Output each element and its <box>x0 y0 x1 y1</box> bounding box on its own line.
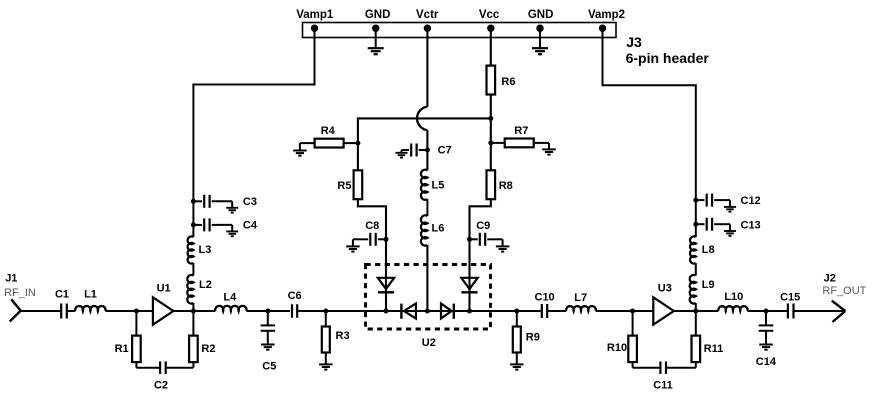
node C5 <box>265 309 270 314</box>
capacitor C14 shunt <box>765 311 767 326</box>
wire L1 to U1 with input node <box>105 310 152 312</box>
resistor R4 <box>355 141 360 146</box>
svg-text:L2: L2 <box>199 279 212 291</box>
inductor L6 <box>421 215 427 245</box>
connector J1 arrow <box>11 299 21 310</box>
diode D2 vertical right <box>467 309 472 314</box>
svg-text:C14: C14 <box>756 356 777 368</box>
node center of diode ring <box>425 309 430 314</box>
wire L9 to U3 output node <box>695 303 697 311</box>
capacitor C9 <box>467 237 472 242</box>
op-amp U3 <box>653 297 674 324</box>
inductor L8 <box>690 236 696 263</box>
wire bias rail corner down through R4 node to R5 <box>357 117 359 170</box>
wire U3 output to L10 <box>674 310 719 312</box>
wire L4 to C6 <box>246 310 290 312</box>
svg-text:R11: R11 <box>704 343 724 355</box>
capacitor C4 <box>191 222 196 227</box>
diode D4 horizontal pointing right <box>441 304 452 319</box>
ground at header pin 5 <box>539 28 541 48</box>
wire bias rail R4 side to Vcc column <box>358 117 491 119</box>
svg-text:L4: L4 <box>223 291 237 303</box>
wire C10 to L7 <box>547 310 566 312</box>
node C14 <box>764 309 769 314</box>
wire C1 to L1 <box>67 310 76 312</box>
svg-text:GND: GND <box>365 9 391 21</box>
wire R6 to R8 through rail and R7 nodes <box>490 95 492 171</box>
node U3 input / R10 <box>630 309 635 314</box>
svg-text:Vctr: Vctr <box>416 9 439 21</box>
inductor L9 <box>690 275 696 304</box>
inductor L10 <box>718 306 747 311</box>
node U1 input / R1 <box>134 309 139 314</box>
wire hop over horizontal line <box>417 107 427 131</box>
svg-text:R5: R5 <box>337 180 351 192</box>
node R3 <box>323 309 328 314</box>
resistor R9 <box>516 311 518 327</box>
svg-text:Vamp2: Vamp2 <box>588 9 625 21</box>
pin 2 GND <box>372 25 379 32</box>
node Vcc-rail junction <box>488 116 493 121</box>
resistor R5 <box>354 170 363 199</box>
wire between L3 and L2 <box>192 263 194 276</box>
wire between L8 and L9 <box>695 263 697 276</box>
wire U1 output to L4 <box>173 310 215 312</box>
capacitor C13 <box>693 222 698 227</box>
svg-text:C5: C5 <box>262 360 276 372</box>
svg-text:U2: U2 <box>422 337 436 349</box>
wire L10 to C15 <box>748 310 789 312</box>
svg-text:6-pin header: 6-pin header <box>626 50 710 66</box>
svg-text:L1: L1 <box>84 289 97 301</box>
svg-text:L9: L9 <box>702 279 715 291</box>
pin 1 Vamp1 <box>311 25 318 32</box>
resistor R3 <box>325 311 327 327</box>
inductor L4 <box>215 306 246 311</box>
resistor R1 <box>135 311 137 336</box>
svg-text:R7: R7 <box>514 125 528 137</box>
connector J2 arrow <box>832 301 846 311</box>
svg-text:L6: L6 <box>432 223 445 235</box>
svg-text:R1: R1 <box>115 343 129 355</box>
capacitor C12 <box>693 198 698 203</box>
svg-text:R4: R4 <box>321 125 336 137</box>
capacitor C5 shunt <box>267 311 269 326</box>
node R9 <box>514 309 519 314</box>
svg-text:C1: C1 <box>55 289 69 301</box>
diode D3 horizontal pointing left <box>400 304 402 319</box>
inductor L1 <box>75 306 105 311</box>
svg-text:RF_OUT: RF_OUT <box>822 285 866 297</box>
inductor L2 <box>187 275 193 304</box>
pin 5 GND <box>536 25 543 32</box>
capacitor C1 <box>60 304 62 319</box>
svg-text:L7: L7 <box>574 292 587 304</box>
capacitor C10 <box>541 304 543 318</box>
resistor R2 <box>192 311 194 336</box>
wire L6 down to diode ring center node <box>426 245 428 311</box>
svg-text:C7: C7 <box>438 145 452 157</box>
capacitor C11 feedback <box>632 362 634 368</box>
svg-text:C13: C13 <box>741 220 761 232</box>
svg-text:U3: U3 <box>658 283 672 295</box>
capacitor C15 <box>787 304 789 319</box>
svg-text:Vcc: Vcc <box>479 9 500 21</box>
svg-text:C2: C2 <box>154 380 168 392</box>
op-amp U1 <box>153 297 174 324</box>
wire C6 through attenuator box to C10 <box>297 310 541 312</box>
svg-text:C3: C3 <box>243 196 257 208</box>
wire Vamp1 pin down and left to bias column <box>193 28 314 237</box>
svg-text:J1: J1 <box>5 273 17 285</box>
svg-text:RF_IN: RF_IN <box>4 287 36 299</box>
wire R8 bottom jog left down to right diode branch <box>470 199 491 311</box>
inductor L7 <box>566 306 596 311</box>
attenuator U2 dashed box <box>366 265 491 330</box>
wire L2 to U1 output node <box>192 303 194 311</box>
svg-text:R3: R3 <box>336 330 350 342</box>
svg-text:R10: R10 <box>607 342 627 354</box>
wire C15 to J2 <box>793 310 845 312</box>
resistor R7 <box>488 140 493 145</box>
svg-text:R2: R2 <box>201 343 215 355</box>
capacitor C3 <box>191 199 196 204</box>
node U3 output <box>693 309 698 314</box>
capacitor C7 <box>425 148 430 153</box>
svg-text:L3: L3 <box>199 244 212 256</box>
wire between L5 and L6 <box>426 199 428 216</box>
pin 6 Vamp2 <box>599 25 606 32</box>
wire L7 to U3 <box>596 310 654 312</box>
svg-text:GND: GND <box>528 9 554 21</box>
svg-text:C11: C11 <box>653 380 673 392</box>
svg-text:Vamp1: Vamp1 <box>296 9 334 21</box>
capacitor C2 feedback <box>135 362 137 368</box>
svg-text:C4: C4 <box>243 220 258 232</box>
wire hop to C7 node and L5 <box>426 130 428 170</box>
svg-text:L5: L5 <box>432 180 445 192</box>
resistor R10 <box>632 311 634 336</box>
wire Vctr down to crossover hop <box>426 28 428 106</box>
svg-text:L10: L10 <box>724 291 743 303</box>
diode D1 vertical left <box>384 309 389 314</box>
resistor R8 <box>487 170 496 199</box>
pin 3 Vctr <box>424 25 431 32</box>
svg-text:R6: R6 <box>501 76 515 88</box>
inductor L5 <box>421 170 427 200</box>
node U1 output <box>191 309 196 314</box>
capacitor C8 <box>384 237 389 242</box>
wire R5 bottom jog right down to left diode branch <box>358 199 386 311</box>
svg-text:C9: C9 <box>476 220 490 232</box>
svg-text:U1: U1 <box>157 283 171 295</box>
resistor R6 <box>487 66 496 95</box>
svg-text:L8: L8 <box>702 244 715 256</box>
capacitor C6 <box>291 304 293 318</box>
svg-text:C8: C8 <box>365 220 379 232</box>
pin 4 Vcc <box>487 25 494 32</box>
connector J3 6-pin header outline <box>303 23 617 38</box>
wire J1 to C1 <box>21 310 62 312</box>
svg-text:J2: J2 <box>824 273 836 285</box>
svg-text:J3: J3 <box>626 34 642 50</box>
svg-text:C12: C12 <box>741 195 761 207</box>
wire Vamp2 pin down and right to bias column <box>603 28 696 237</box>
svg-text:C6: C6 <box>288 290 302 302</box>
svg-text:C15: C15 <box>780 291 800 303</box>
svg-text:R9: R9 <box>526 331 540 343</box>
resistor R11 <box>695 311 697 336</box>
inductor L3 <box>188 236 194 263</box>
svg-text:C10: C10 <box>535 291 555 303</box>
ground at header pin 2 <box>375 28 377 48</box>
wire Vcc pin down to R6 <box>490 28 492 65</box>
svg-text:R8: R8 <box>499 180 513 192</box>
